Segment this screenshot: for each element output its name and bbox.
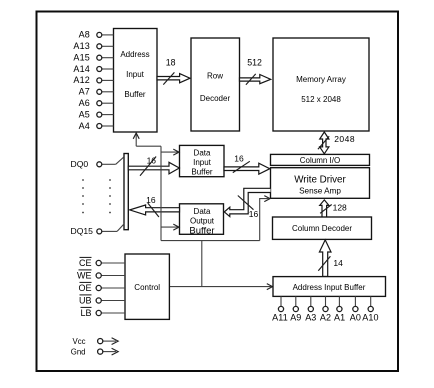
pin DQ15	[71, 224, 125, 236]
svg-text:Decoder: Decoder	[200, 94, 231, 103]
pin Vcc	[73, 337, 119, 346]
pin A1	[334, 296, 345, 322]
svg-text:128: 128	[333, 203, 347, 213]
pin A10	[362, 296, 378, 322]
svg-text:A14: A14	[73, 64, 90, 74]
svg-text:14: 14	[333, 258, 343, 268]
svg-text:Control: Control	[134, 283, 160, 292]
bus arrow 14 (Address Input Buffer bottom to Column Decoder)	[318, 240, 343, 277]
svg-text:Buffer: Buffer	[124, 90, 146, 99]
svg-text:Memory Array: Memory Array	[296, 75, 346, 84]
pin A2	[320, 296, 331, 322]
svg-text:Gnd: Gnd	[71, 347, 86, 356]
svg-text:A0: A0	[350, 313, 361, 323]
pin A4	[79, 121, 114, 131]
wire control horizontal under Data Output Buffer	[161, 240, 260, 242]
svg-text:A13: A13	[73, 41, 90, 51]
svg-text:Input: Input	[193, 158, 212, 167]
svg-text:Vcc: Vcc	[73, 337, 86, 346]
svg-text:Data: Data	[194, 148, 211, 157]
svg-text:Column I/O: Column I/O	[300, 156, 340, 165]
pin A5	[79, 109, 114, 119]
block Address Input Buffer (top-left)	[114, 29, 158, 133]
pin A6	[79, 98, 114, 108]
svg-text:Output: Output	[190, 216, 215, 225]
svg-text:Data: Data	[194, 207, 211, 216]
svg-text:Write Driver: Write Driver	[294, 175, 346, 186]
svg-text:A7: A7	[79, 87, 90, 97]
svg-text:A3: A3	[305, 313, 316, 323]
svg-text:DQ15: DQ15	[71, 226, 94, 236]
svg-text:A12: A12	[73, 75, 90, 85]
DQ bus bar	[124, 154, 128, 230]
block Row Decoder	[191, 38, 240, 131]
pin A12	[73, 75, 113, 85]
svg-text:512 x 2048: 512 x 2048	[301, 95, 341, 104]
pin A13	[73, 41, 113, 51]
bus arrow 16 (Sense Amp to Data Output Buffer, bent)	[224, 188, 270, 219]
svg-text:UB: UB	[79, 295, 92, 305]
pin A9	[290, 296, 301, 322]
svg-text:Address Input Buffer: Address Input Buffer	[293, 283, 366, 292]
svg-text:Buffer: Buffer	[191, 167, 213, 176]
pin CE	[79, 257, 125, 267]
svg-text:16: 16	[234, 153, 244, 163]
bus arrow 16 (Data Output Buffer to DQ bus)	[130, 195, 180, 217]
pin WE	[77, 270, 125, 280]
DQ ellipsis dots	[82, 179, 111, 213]
bus arrow 18 (Address Input Buffer to Row Decoder)	[157, 58, 190, 85]
bus arrow 128 (Column Decoder to Write Driver)	[320, 200, 347, 217]
arrowhead into Address Input Buffer (bottom)	[267, 284, 273, 290]
bus arrow 512 (Row Decoder to Memory Array)	[240, 57, 271, 84]
bus arrow 16 (DQ bus to Data Input Buffer)	[128, 155, 179, 175]
block Control	[125, 254, 169, 319]
svg-text:DQ0: DQ0	[71, 159, 89, 169]
svg-text:A10: A10	[362, 313, 378, 323]
svg-text:A9: A9	[290, 313, 301, 323]
block Address Input Buffer (bottom)	[273, 277, 386, 297]
pin A8	[79, 30, 114, 40]
svg-text:A6: A6	[79, 98, 90, 108]
pin A14	[73, 64, 113, 74]
svg-text:16: 16	[249, 209, 259, 219]
pin A7	[79, 87, 114, 97]
pin A0	[350, 296, 361, 322]
svg-text:512: 512	[247, 57, 262, 67]
svg-text:A4: A4	[79, 121, 90, 131]
svg-text:LB: LB	[80, 308, 91, 318]
svg-text:A15: A15	[73, 53, 90, 63]
svg-text:Row: Row	[207, 71, 223, 80]
border frame	[37, 12, 399, 372]
bus arrow 2048 (Memory Array to Column I/O, bidirectional)	[318, 132, 355, 154]
svg-text:Address: Address	[120, 50, 149, 59]
svg-text:A2: A2	[320, 313, 331, 323]
svg-text:WE: WE	[77, 270, 92, 280]
svg-text:Column Decoder: Column Decoder	[292, 224, 352, 233]
pin A3	[305, 296, 316, 322]
svg-text:OE: OE	[78, 283, 91, 293]
pin UB	[79, 295, 125, 305]
svg-text:Input: Input	[126, 70, 145, 79]
wire control arrow up into Address Input Buffer (top)	[135, 134, 137, 147]
svg-text:A1: A1	[334, 313, 345, 323]
pin Gnd	[71, 347, 118, 356]
wire control output to Address Input Buffer (bottom)	[169, 286, 271, 288]
svg-text:2048: 2048	[334, 134, 355, 144]
svg-text:A11: A11	[272, 313, 288, 323]
svg-text:CE: CE	[79, 258, 92, 268]
wire control branch vertical	[201, 241, 203, 287]
pin OE	[78, 282, 125, 292]
wire control arrow into Data Input Buffer	[161, 151, 178, 153]
block Data Output Buffer	[180, 204, 224, 237]
pin A11	[272, 296, 288, 322]
block Memory Array	[273, 38, 369, 131]
pin LB	[80, 307, 125, 317]
wire control top horizontal	[136, 145, 161, 147]
block Data Input Buffer	[180, 145, 225, 176]
pin DQ0	[71, 157, 124, 169]
svg-text:Buffer: Buffer	[189, 225, 214, 236]
bus arrow 16 (Data Input Buffer to Write Driver)	[224, 153, 270, 174]
pin A15	[73, 53, 113, 63]
svg-text:16: 16	[147, 155, 157, 165]
svg-text:18: 18	[166, 58, 176, 68]
block Column I/O	[271, 154, 370, 165]
svg-text:Sense Amp: Sense Amp	[299, 186, 341, 195]
wire control arrow into Data Output Buffer	[161, 226, 178, 228]
svg-text:A5: A5	[79, 109, 90, 119]
wire control vertical left	[160, 146, 162, 240]
block Write Driver / Sense Amp	[271, 168, 370, 199]
block Column Decoder	[273, 217, 372, 239]
svg-text:16: 16	[146, 195, 156, 205]
svg-text:A8: A8	[79, 30, 90, 40]
wire control arrow into Write Driver	[260, 199, 269, 241]
